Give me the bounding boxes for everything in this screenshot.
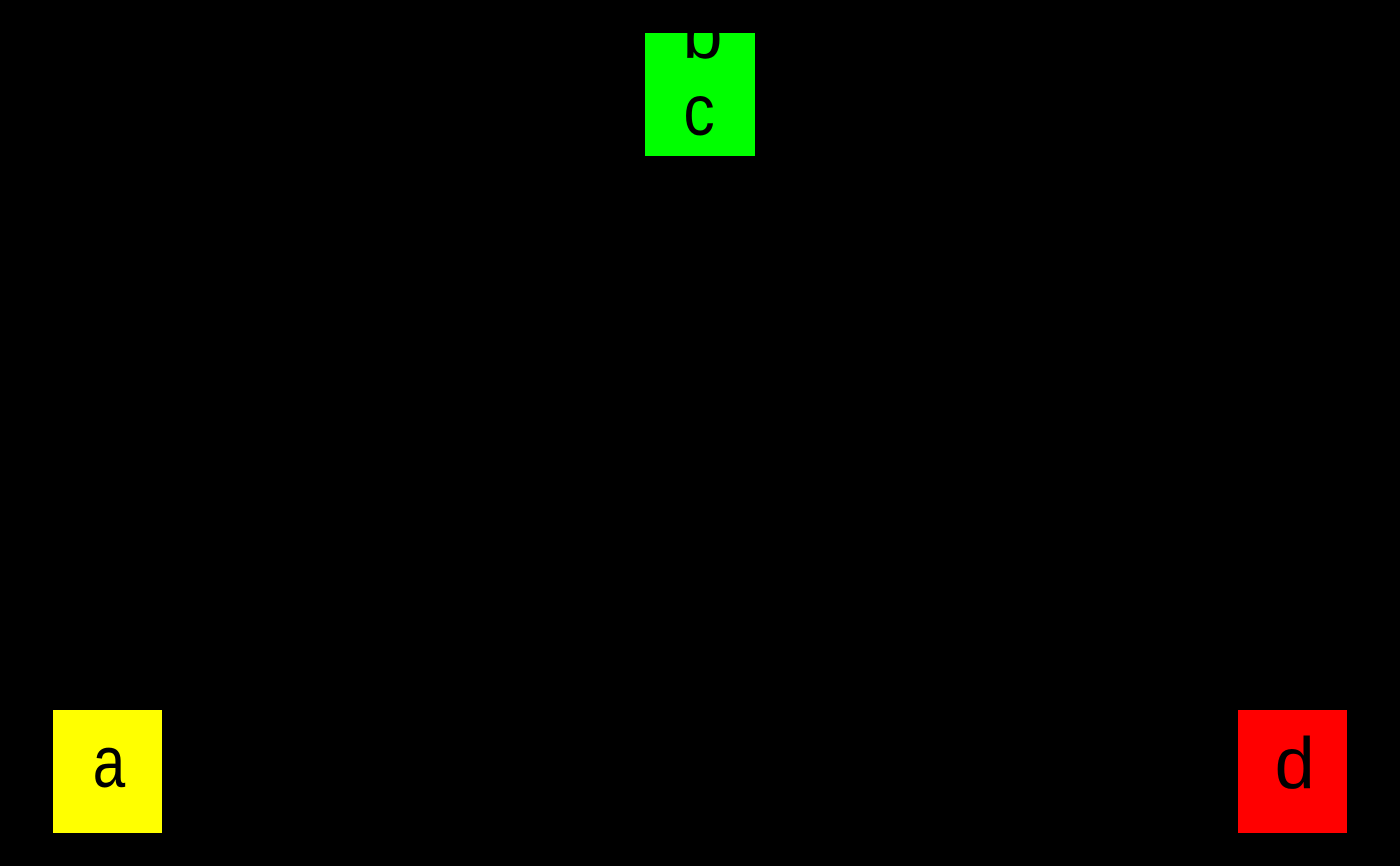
node d red box (1238, 710, 1347, 833)
label c (683, 75, 714, 147)
label d (1275, 728, 1315, 800)
label a (92, 727, 124, 799)
node b/c green box (645, 33, 755, 156)
node a yellow box (53, 710, 162, 833)
label b (682, 0, 722, 70)
